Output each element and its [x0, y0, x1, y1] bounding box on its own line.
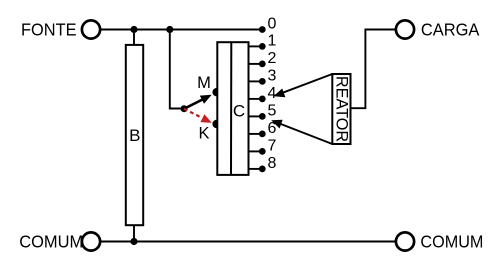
svg-text:3: 3 — [268, 67, 277, 84]
contact node M — [212, 88, 220, 96]
tapped winding C (outer box) — [217, 42, 248, 175]
svg-text:C: C — [233, 101, 245, 120]
svg-text:COMUM: COMUM — [420, 232, 483, 252]
reactor REATOR body — [332, 74, 350, 144]
svg-text:7: 7 — [268, 137, 277, 154]
tap 1 node — [259, 43, 266, 50]
svg-text:1: 1 — [268, 32, 277, 49]
wire tap 8 — [249, 168, 263, 170]
svg-text:FONTE: FONTE — [21, 20, 77, 40]
tap 6 node — [259, 131, 266, 138]
svg-text:COMUM: COMUM — [19, 232, 83, 252]
contact node K — [212, 120, 220, 128]
tap 8 node — [259, 166, 266, 173]
svg-text:CARGA: CARGA — [421, 20, 480, 40]
tap 5 node — [259, 113, 266, 120]
tap 3 node — [259, 78, 266, 85]
wire tap 6 — [249, 133, 263, 135]
wire tap 1 — [249, 45, 263, 47]
wire top bus (FONTE to tap 0) — [101, 29, 262, 31]
svg-text:4: 4 — [268, 85, 277, 102]
svg-text:M: M — [197, 74, 211, 92]
terminal CARGA — [396, 20, 414, 38]
wire tap 7 — [249, 150, 263, 152]
junction node top-B — [130, 26, 137, 33]
tap 7 node — [259, 148, 266, 155]
reactor selector arrow to tap 5 — [281, 124, 333, 144]
svg-text:5: 5 — [268, 102, 277, 119]
switch arm to M (black arrow) — [184, 100, 203, 109]
switch pivot node — [181, 105, 188, 112]
terminal COMUM right — [396, 232, 414, 250]
wire tap 5 — [249, 115, 263, 117]
switch alternate arm to K (red dashed arrow) — [184, 109, 202, 118]
svg-text:0: 0 — [268, 16, 277, 33]
tap 4 node — [259, 96, 266, 103]
svg-text:K: K — [198, 124, 209, 142]
wire stub B to bottom bus — [133, 225, 135, 242]
tap 2 node — [259, 61, 266, 68]
wire REATOR to CARGA — [351, 30, 396, 109]
junction node top-switch — [166, 26, 173, 33]
svg-text:2: 2 — [268, 50, 277, 67]
wire tap 3 — [249, 80, 263, 82]
autotransformer winding B — [126, 45, 143, 225]
reactor selector arrow to tap 4 — [282, 74, 333, 93]
terminal FONTE — [82, 20, 100, 38]
wire bottom bus (COMUM to COMUM) — [101, 241, 395, 243]
svg-text:B: B — [129, 126, 140, 145]
wire stub top to B — [133, 30, 135, 46]
tap 0 node — [259, 26, 266, 33]
winding C brush track divider — [230, 42, 232, 175]
junction node bottom-B — [130, 238, 137, 245]
svg-text:REATOR: REATOR — [332, 76, 350, 142]
wire tap 4 — [249, 98, 263, 100]
terminal COMUM left — [82, 232, 100, 250]
svg-text:8: 8 — [268, 155, 277, 172]
wire tap 2 — [249, 63, 263, 65]
wire top to switch pivot — [170, 30, 184, 109]
